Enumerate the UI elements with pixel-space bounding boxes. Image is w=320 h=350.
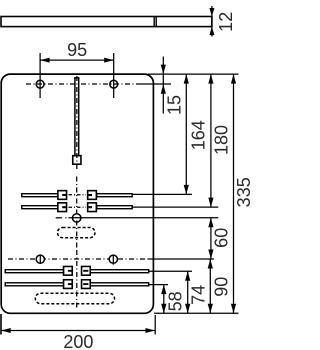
svg-text:95: 95	[67, 40, 87, 60]
svg-text:90: 90	[212, 277, 232, 297]
svg-text:12: 12	[216, 12, 236, 32]
svg-text:200: 200	[63, 332, 93, 350]
svg-text:74: 74	[189, 285, 209, 305]
svg-text:15: 15	[165, 95, 185, 115]
svg-text:164: 164	[189, 120, 209, 150]
svg-text:58: 58	[165, 291, 185, 311]
svg-text:180: 180	[212, 125, 232, 155]
svg-text:60: 60	[212, 228, 232, 248]
svg-text:335: 335	[234, 177, 250, 207]
